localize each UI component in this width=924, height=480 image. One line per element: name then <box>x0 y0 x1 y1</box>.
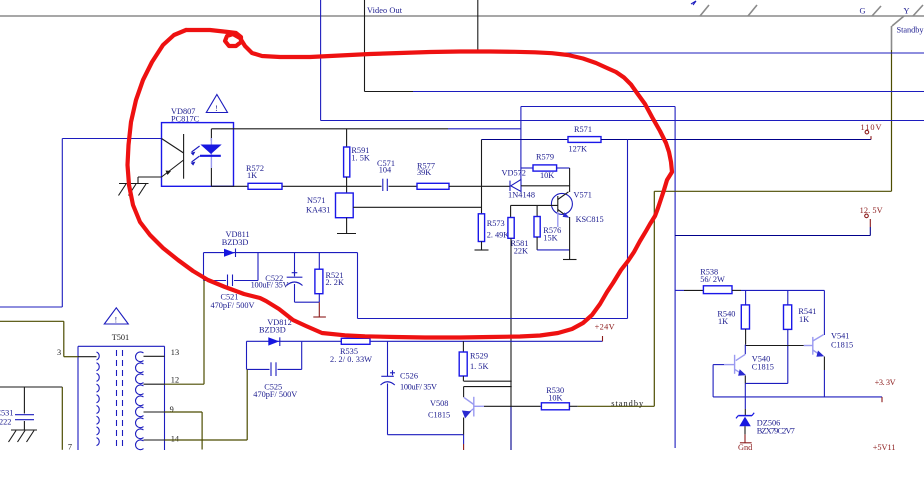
resistor R540 <box>741 290 749 344</box>
svg-text:Y: Y <box>904 7 910 16</box>
label 15K <box>543 233 557 242</box>
label VD572 <box>502 169 526 178</box>
warning triangle 1 <box>206 95 227 114</box>
capacitor C525 <box>247 341 302 376</box>
svg-text:PC817C: PC817C <box>171 115 200 124</box>
svg-text:100uF/ 35V: 100uF/ 35V <box>251 281 289 290</box>
pin 9 tap <box>144 411 165 413</box>
wire video out vertical 1 <box>364 0 366 92</box>
wire R576 bottom <box>537 249 570 251</box>
svg-text:222: 222 <box>0 418 11 427</box>
label pin 7 <box>68 443 72 452</box>
resistor R573 <box>478 214 484 250</box>
svg-text:470pF/ 500V: 470pF/ 500V <box>253 390 297 399</box>
label 10K R530 <box>548 393 562 402</box>
wire horizontal y319 <box>358 318 628 320</box>
svg-text:N571: N571 <box>307 196 325 205</box>
wire V571 collector <box>569 186 571 192</box>
pin 3 tap <box>78 356 97 358</box>
label 222 <box>0 418 11 427</box>
svg-text:V541: V541 <box>831 331 849 340</box>
capacitor C571 <box>383 179 388 191</box>
svg-text:12. 5V: 12. 5V <box>860 206 883 215</box>
wire R571 to 110V <box>601 139 871 141</box>
svg-text:G: G <box>860 7 866 16</box>
label C1815 V508 <box>428 411 450 420</box>
LED of VD807 <box>200 129 222 187</box>
resistor R577 <box>417 183 449 189</box>
wire vertical x357 <box>357 253 359 319</box>
connector pin slash 1 <box>700 5 709 16</box>
transistor V508 <box>462 387 484 419</box>
wire C522 bottom <box>295 301 320 303</box>
wire collector box bottom <box>464 386 512 388</box>
svg-text:Video Out: Video Out <box>367 6 403 15</box>
wire video out line 2 blue <box>478 52 924 54</box>
wire standby vertical olive x654 <box>653 191 655 406</box>
svg-text:10K: 10K <box>540 171 554 180</box>
label pin 14 <box>171 435 180 444</box>
label G <box>860 7 866 16</box>
light arrows <box>191 146 200 166</box>
label C571 <box>377 159 395 168</box>
label C526 <box>400 372 418 381</box>
wire R579 right down <box>569 168 571 186</box>
svg-text:KA431: KA431 <box>306 205 330 214</box>
label +24V <box>595 323 615 332</box>
svg-text:BZD3D: BZD3D <box>222 238 249 247</box>
label V540 <box>752 355 770 364</box>
wire 110V line <box>482 139 569 141</box>
label R573 <box>487 219 505 228</box>
label 10K <box>540 171 554 180</box>
optocoupler input wire <box>62 138 161 140</box>
wire pin3 olive <box>0 321 78 356</box>
feedback box right edge <box>674 107 676 449</box>
wire opto emitter <box>138 177 162 184</box>
svg-text:104: 104 <box>379 166 392 175</box>
label 1K R540 <box>718 317 728 326</box>
zener diode DZ506 <box>736 413 754 426</box>
label 2.2K <box>326 278 344 287</box>
wire N571 right <box>353 206 481 208</box>
wire vertical bus left <box>320 0 322 121</box>
svg-text:R529: R529 <box>470 352 488 361</box>
label 2.49K <box>487 231 510 240</box>
svg-text:1K: 1K <box>718 317 728 326</box>
label C525 <box>264 383 282 392</box>
pin 12 tap <box>144 383 165 385</box>
resistor R572 <box>248 183 282 189</box>
label pin 9 <box>170 405 174 414</box>
label KSC815 <box>576 215 604 224</box>
svg-text:V571: V571 <box>574 191 592 200</box>
svg-text:Standby: Standby <box>897 26 924 35</box>
wire C571 to R577 <box>389 185 418 187</box>
ground R573 <box>475 249 489 251</box>
resistor R571 <box>568 137 601 143</box>
label BZX79C2V7 <box>757 426 795 435</box>
svg-text:15K: 15K <box>543 233 557 242</box>
label KA431 <box>306 205 330 214</box>
wire V541 base line <box>745 345 804 347</box>
svg-text:10K: 10K <box>548 393 562 402</box>
label Video Out <box>367 6 403 15</box>
label +5V <box>873 443 896 452</box>
label 100uF/35V C522 <box>251 281 289 290</box>
phototransistor of VD807 <box>162 134 184 179</box>
diode VD811 <box>224 249 236 258</box>
wire standby vertical olive <box>891 50 893 191</box>
transistor V541 <box>804 335 824 357</box>
label VD811 <box>226 230 250 239</box>
transformer secondary winding <box>136 352 144 450</box>
svg-text:22K: 22K <box>514 247 528 256</box>
label R535 <box>340 347 358 356</box>
wire feedback vertical <box>481 140 483 214</box>
pin 13 tap <box>144 355 165 357</box>
terminal +24V <box>602 336 604 341</box>
svg-text:39K: 39K <box>417 168 431 177</box>
wire collector box top <box>464 380 512 382</box>
wire pin14 olive <box>165 439 248 441</box>
svg-text:127K: 127K <box>569 145 587 154</box>
wire R572 line <box>211 185 381 187</box>
resistor R579 <box>521 165 570 171</box>
wire left vertical <box>61 139 63 308</box>
label R579 <box>536 153 554 162</box>
svg-text:1K: 1K <box>799 315 809 324</box>
svg-text:!: ! <box>115 316 118 325</box>
label 470pF/500V C521 <box>211 301 255 310</box>
optocoupler U VD807 box <box>162 123 234 187</box>
svg-text:100uF/ 35V: 100uF/ 35V <box>400 382 437 391</box>
svg-text:C1815: C1815 <box>428 411 450 420</box>
label pin 3 <box>57 348 61 357</box>
svg-text:2. 49K: 2. 49K <box>487 231 510 240</box>
svg-text:C526: C526 <box>400 372 418 381</box>
svg-text:R579: R579 <box>536 153 554 162</box>
wire 24V line <box>302 340 603 342</box>
resistor R576 <box>534 205 540 250</box>
label 127K <box>569 145 587 154</box>
label C522 <box>265 274 283 283</box>
wire R581 bottom long <box>510 238 512 450</box>
label N571 <box>307 196 325 205</box>
label DZ506 <box>757 418 781 427</box>
label R591 <box>351 146 369 155</box>
resistor R530 <box>541 403 569 410</box>
wire video out corner 1 black <box>365 91 414 93</box>
label pin 12 <box>171 376 179 385</box>
label R571 <box>574 125 592 134</box>
label R530 <box>546 386 564 395</box>
svg-text:T501: T501 <box>112 333 130 342</box>
svg-text:7: 7 <box>68 443 72 452</box>
resistor R591 <box>344 129 350 193</box>
label R521 <box>326 271 344 280</box>
wire R538 to corner <box>732 289 824 291</box>
svg-text:R571: R571 <box>574 125 592 134</box>
svg-text:+24V: +24V <box>595 323 615 332</box>
resistor R535 <box>341 338 370 344</box>
svg-text:13: 13 <box>171 348 179 357</box>
svg-text:C531: C531 <box>0 408 13 417</box>
label 56/2W <box>700 275 725 284</box>
svg-text:C1815: C1815 <box>831 340 853 349</box>
svg-text:1. 5K: 1. 5K <box>470 362 488 371</box>
wire zener branch <box>744 383 746 415</box>
label 100uF/35V C526 <box>400 382 437 391</box>
label V571 <box>574 191 592 200</box>
label T501 <box>112 333 130 342</box>
svg-text:56/ 2W: 56/ 2W <box>700 275 725 284</box>
label 1N4148 <box>508 191 535 200</box>
label R576 <box>543 226 561 235</box>
ground N571 <box>337 218 356 234</box>
wire zener to gnd <box>740 426 752 443</box>
capacitor C531 <box>15 387 34 430</box>
wire VD572 anode <box>521 185 570 187</box>
wire pin12 riser olive <box>203 281 205 385</box>
ground V571 <box>563 259 577 261</box>
wire base to R581 <box>510 205 512 217</box>
svg-text:470pF/ 500V: 470pF/ 500V <box>211 301 255 310</box>
label +3.3V <box>875 378 896 387</box>
label C1815 V540 <box>752 363 774 372</box>
label C521 <box>221 293 239 302</box>
svg-text:9: 9 <box>170 405 174 414</box>
wire LED anode top <box>211 128 521 130</box>
wire standby olive <box>569 405 654 407</box>
label V541 <box>831 331 849 340</box>
wire V541 emitter <box>823 357 825 397</box>
label Standby <box>897 26 924 35</box>
label 470pF/500V C525 <box>253 390 297 399</box>
label BZD3D VD811 <box>222 238 249 247</box>
label pin 13 <box>171 348 179 357</box>
label 39K <box>417 168 431 177</box>
label R541 <box>798 307 816 316</box>
wire to left edge <box>0 306 62 308</box>
wire video out line 1 blue <box>413 91 924 93</box>
diode VD572 <box>510 180 521 192</box>
svg-text:3: 3 <box>57 348 61 357</box>
wire standby vertical gray top <box>891 26 893 50</box>
svg-text:2. 2K: 2. 2K <box>326 278 344 287</box>
svg-text:KSC815: KSC815 <box>576 215 604 224</box>
wire vertical x627 <box>627 140 629 319</box>
connector pin slash 2 <box>748 5 757 16</box>
svg-text:1. 5K: 1. 5K <box>351 154 369 163</box>
wire video out vertical 2 <box>477 0 479 53</box>
svg-text:1N4148: 1N4148 <box>508 191 535 200</box>
label Y <box>904 7 910 16</box>
shunt regulator N571 box <box>336 193 354 218</box>
svg-text:standby: standby <box>611 399 644 408</box>
wire V541 collector vertical <box>823 290 825 335</box>
wire R538 line <box>675 289 703 291</box>
label 104 <box>379 166 392 175</box>
wire V508 base <box>484 405 541 407</box>
wire long blue bus <box>321 120 924 122</box>
svg-text:R573: R573 <box>487 219 505 228</box>
diode VD812 <box>247 337 302 346</box>
connector pin slash Y <box>913 5 923 16</box>
wire V571 base <box>511 204 558 206</box>
label 1.5K <box>351 154 369 163</box>
feedback box left edge <box>520 107 522 181</box>
wire V540 base loop <box>713 365 724 397</box>
wire C526 bottom <box>388 434 464 436</box>
resistor R581 <box>508 218 514 239</box>
transformer core dashes <box>117 350 123 448</box>
label Gnd <box>738 443 753 452</box>
label R529 <box>470 352 488 361</box>
label 12.5V <box>860 206 883 215</box>
capacitor C522 <box>287 253 303 303</box>
wire pin14 riser olive <box>246 369 248 440</box>
label VD807 <box>171 107 195 116</box>
wire R577 to VD572 <box>449 185 510 187</box>
terminal 12.5V <box>865 214 871 235</box>
red annotation loop <box>128 30 673 338</box>
label R577 <box>417 162 435 171</box>
resistor R538 <box>703 286 732 294</box>
svg-text:1K: 1K <box>247 171 257 180</box>
wire V571 emitter <box>569 217 571 260</box>
label C1815 V541 <box>831 340 853 349</box>
svg-text:Gnd: Gnd <box>738 443 753 452</box>
transformer primary winding <box>97 352 100 446</box>
top bus line <box>0 15 924 17</box>
capacitor C526 <box>381 341 396 434</box>
warning triangle 2 <box>104 308 128 325</box>
wire C531 line <box>0 386 62 388</box>
wire pin9 olive <box>165 412 203 450</box>
svg-text:2. 2/ 0. 33W: 2. 2/ 0. 33W <box>330 355 372 364</box>
transformer T501 box <box>78 346 165 450</box>
label VD812 <box>267 318 291 327</box>
label R581 <box>511 239 529 248</box>
label V508 <box>430 399 448 408</box>
chassis ground C531 <box>9 430 38 442</box>
wire 12.5V line <box>675 235 870 237</box>
wire pin12 olive <box>165 383 205 385</box>
label 110V <box>861 123 882 132</box>
svg-text:12: 12 <box>171 376 179 385</box>
transistor V571 <box>551 192 572 227</box>
wire V508 emitter <box>463 418 465 451</box>
wire standby horizontal olive y191 <box>654 190 891 192</box>
chassis ground opto <box>119 184 149 196</box>
connector pin slash G <box>872 6 881 16</box>
wire VD811 top line <box>204 252 358 254</box>
label C531 <box>0 408 13 417</box>
wire V540 emitter <box>745 376 788 384</box>
svg-text:110V: 110V <box>861 123 882 132</box>
wire pin7 vertical olive <box>61 387 63 450</box>
label R540 <box>717 309 735 318</box>
svg-text:+5V11: +5V11 <box>873 443 896 452</box>
svg-text:VD572: VD572 <box>502 169 526 178</box>
svg-text:BZX79C2V7: BZX79C2V7 <box>757 426 795 435</box>
svg-text:V508: V508 <box>430 399 448 408</box>
svg-text:C1815: C1815 <box>752 363 774 372</box>
transistor V540 <box>724 345 746 376</box>
label PC817C <box>171 115 200 124</box>
label standby <box>611 399 644 408</box>
label 1.5K R529 <box>470 362 488 371</box>
label BZD3D VD812 <box>259 325 286 334</box>
wire 3.3V rail <box>713 396 882 398</box>
svg-text:+3. 3V: +3. 3V <box>875 378 896 387</box>
label 2.2/0.33W <box>330 355 372 364</box>
svg-text:14: 14 <box>171 435 180 444</box>
label 1K R541 <box>799 315 809 324</box>
resistor R529 <box>459 341 467 381</box>
terminal +3.3V <box>881 397 883 402</box>
capacitor C521 branch <box>204 253 259 286</box>
wire Y pin diagonal <box>892 16 904 26</box>
label 22K <box>514 247 528 256</box>
svg-text:BZD3D: BZD3D <box>259 325 286 334</box>
resistor R521 <box>315 253 323 303</box>
pin 14 tap <box>144 439 165 441</box>
feedback box top edge <box>521 106 675 108</box>
terminal 110V <box>865 130 871 139</box>
label R538 <box>700 267 718 276</box>
svg-text:!: ! <box>215 104 218 113</box>
tiny blue connector mark <box>691 1 696 5</box>
label 1K <box>247 171 257 180</box>
label R572 <box>246 164 264 173</box>
ground R521 dark red <box>313 302 326 317</box>
resistor R541 <box>784 290 792 383</box>
